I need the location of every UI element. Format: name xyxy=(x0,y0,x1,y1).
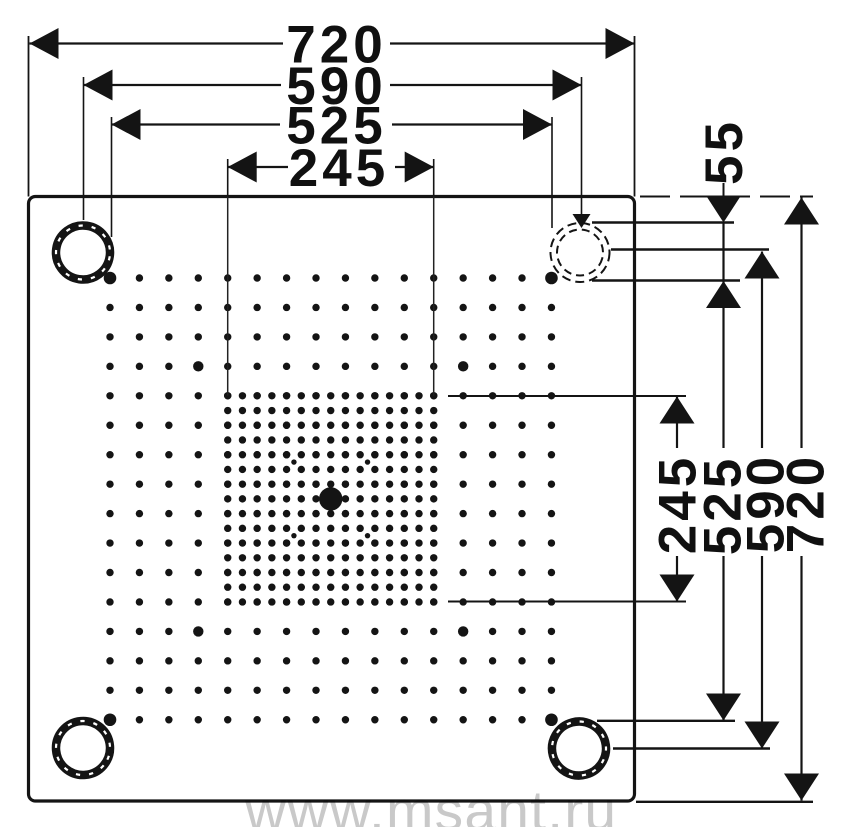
panel outline xyxy=(29,197,635,802)
dim 590 vertical bottom arrow xyxy=(745,722,780,749)
dim 245 vertical top arrow xyxy=(660,397,695,424)
centre nozzle dot xyxy=(319,487,342,510)
extension line dense zone right (245) xyxy=(433,159,435,197)
dense central nozzle dot grid 15x15 xyxy=(224,392,437,606)
nozzle ring top-left xyxy=(53,222,114,283)
corner marker dots xyxy=(104,272,558,726)
extension line right circle centre (590) xyxy=(581,77,583,218)
svg-text:www.msant.ru: www.msant.ru xyxy=(244,779,617,827)
dense zone bottom extension line xyxy=(448,601,686,603)
dim 245 vertical line xyxy=(676,397,678,449)
connection circle top-right (dashed) xyxy=(551,223,610,282)
dim 245 horizontal line xyxy=(228,166,288,168)
dim 55 stub line xyxy=(723,183,725,197)
circle centre extension line top-right xyxy=(611,248,769,250)
extension line left circle centre (590) xyxy=(83,77,85,220)
dim 245 vertical bottom arrow xyxy=(660,575,695,602)
nozzle ring bottom-right xyxy=(546,715,612,781)
extension line left circle inner tangent (525) xyxy=(111,117,113,237)
bottom circle centre extension line xyxy=(613,747,770,749)
dim 525 vertical top arrow xyxy=(706,281,741,308)
tiny diagonal dots around centre xyxy=(291,459,370,538)
dim 720 vertical line xyxy=(800,198,802,449)
dim 590 horizontal left arrow xyxy=(84,70,113,101)
dim 525 horizontal line xyxy=(112,123,281,125)
bottom circle top tangent extension line xyxy=(597,720,735,722)
dim 590 vertical top arrow xyxy=(745,252,780,279)
dim 720 vertical bottom arrow xyxy=(784,774,819,801)
dense zone top extension line xyxy=(448,395,686,397)
circle top tangent extension line xyxy=(592,221,734,223)
extension line left edge (720) xyxy=(28,36,30,197)
svg-text:720: 720 xyxy=(777,453,836,553)
svg-text:55: 55 xyxy=(695,118,754,185)
dim 245 horizontal right arrow xyxy=(405,152,434,183)
extension line right edge (720) xyxy=(634,36,636,197)
medium nozzle dots xyxy=(193,361,468,636)
nozzle ring bottom-left xyxy=(45,710,121,786)
dim 590 vertical line xyxy=(761,252,763,449)
dim 525 horizontal left arrow xyxy=(112,109,141,140)
dim 245 horizontal left arrow xyxy=(228,152,257,183)
svg-text:245: 245 xyxy=(289,139,389,198)
dim 590 horizontal line xyxy=(84,84,282,86)
dim 720 horizontal left arrow xyxy=(30,28,59,59)
dim 720 horizontal line xyxy=(30,42,284,44)
circle bottom tangent extension line top-right xyxy=(592,279,740,281)
dim 55 down arrow xyxy=(706,196,741,223)
svg-text:245: 245 xyxy=(649,454,708,554)
dim 525 vertical bottom arrow xyxy=(706,694,741,721)
top edge extension dashed (right) xyxy=(640,196,813,198)
dim 720 vertical top arrow xyxy=(784,198,819,225)
dim 525 horizontal right arrow xyxy=(523,109,552,140)
extension line dense zone left (245) xyxy=(227,159,229,197)
dim 720 horizontal right arrow xyxy=(606,28,635,59)
extension line right circle inner tangent (525) xyxy=(551,117,553,228)
dim 590 horizontal right arrow xyxy=(553,70,582,101)
dim 525 vertical line xyxy=(722,223,724,449)
sparse nozzle dot grid 16x16 xyxy=(106,274,555,723)
small triangle marker on right circle xyxy=(573,214,591,228)
bottom edge extension line xyxy=(636,801,813,803)
